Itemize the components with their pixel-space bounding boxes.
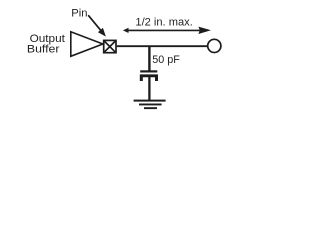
pin symbol (crossed box) [104, 40, 116, 52]
arrow from Pin label to pin box [88, 15, 106, 36]
capacitor C1 top plate [140, 70, 157, 72]
svg-text:1/2 in. max.: 1/2 in. max. [135, 17, 192, 29]
node probe circle [208, 39, 221, 52]
dimension arrow 1/2 in. max. [123, 27, 211, 34]
wire from pin to probe circle [117, 45, 208, 47]
ground symbol [134, 100, 166, 110]
svg-text:Buffer: Buffer [27, 44, 60, 56]
wire capacitor to ground [148, 77, 150, 100]
op-amp buffer U1 triangle [71, 32, 103, 57]
wire junction to capacitor [148, 46, 150, 70]
svg-text:Pin: Pin [71, 8, 87, 20]
svg-text:50 pF: 50 pF [152, 54, 180, 66]
capacitor C1 bottom plate (curved/bracket) [140, 74, 158, 81]
